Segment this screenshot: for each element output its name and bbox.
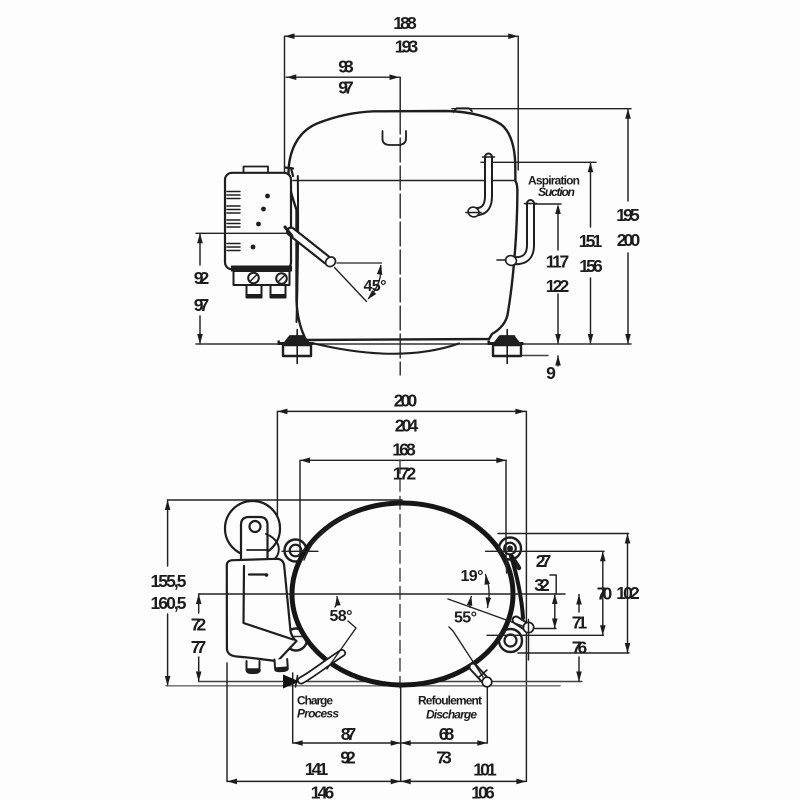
wire dim 155,5 vertical: [167, 500, 169, 686]
svg-text:72: 72: [191, 615, 207, 635]
arrowheads 93: [286, 74, 296, 80]
wire ext box left: [226, 663, 228, 781]
process tube 45deg: [285, 227, 337, 269]
strap to grommet: [266, 534, 279, 563]
foot left: [278, 330, 314, 364]
wire dim line 200/204: [277, 411, 525, 536]
wire centerline vertical dashed: [399, 460, 401, 688]
arrowhead 9: [555, 356, 561, 366]
svg-text:Process: Process: [297, 707, 339, 721]
svg-text:122: 122: [546, 276, 570, 296]
grommet bottom-left: [285, 619, 316, 651]
wire dim 72/77 vertical: [198, 594, 200, 682]
wire bottom ref A: [199, 681, 582, 683]
svg-text:151: 151: [579, 231, 603, 251]
wire ref tube stub: [535, 628, 556, 630]
svg-text:93: 93: [338, 57, 354, 77]
svg-text:92: 92: [194, 268, 210, 288]
wire foot bottom ref (9): [521, 355, 548, 357]
wire dim line 87/68: [293, 742, 488, 744]
wire dim line 92/97 vertical: [199, 233, 201, 344]
box lower strap: [231, 266, 292, 272]
relay circle: [225, 501, 280, 556]
wire ref left boltline: [282, 550, 318, 552]
wire ref line 117 top: [526, 203, 561, 205]
svg-text:200: 200: [617, 230, 641, 250]
svg-text:45°: 45°: [364, 278, 387, 295]
svg-text:55°: 55°: [454, 610, 477, 627]
suction tube curve (plan): [511, 556, 523, 618]
58deg construction: [327, 597, 356, 670]
svg-text:117: 117: [546, 252, 570, 272]
arrowheads 117/122: [555, 204, 561, 214]
arrowheads 72/77: [196, 594, 202, 604]
shell inner seam arc: [304, 512, 355, 560]
svg-text:27: 27: [536, 551, 552, 571]
shell bottom sag: [314, 344, 459, 354]
arrowheads 168: [300, 458, 310, 464]
ref line 92 top (over box): [196, 232, 291, 234]
svg-text:101: 101: [473, 760, 497, 780]
svg-text:19°: 19°: [461, 568, 484, 585]
arrowheads 70: [600, 551, 606, 561]
wire dim 70: [602, 551, 604, 635]
wire ref line 195 top: [452, 108, 631, 110]
svg-text:76: 76: [572, 638, 588, 658]
box rivet dots: [251, 194, 270, 250]
wire ref boltline bottom: [487, 634, 604, 636]
relay bracket: [241, 517, 268, 565]
terminal box (side view): [225, 167, 298, 323]
grommet top-right: [499, 538, 521, 574]
svg-text:70: 70: [597, 584, 613, 604]
arrowheads 87/68: [293, 740, 303, 746]
wire dim line 188/193: [285, 36, 519, 176]
weld seam line: [293, 180, 515, 182]
svg-text:102: 102: [616, 583, 640, 603]
svg-text:Refoulement: Refoulement: [418, 694, 482, 708]
wire ext discharge tube: [486, 686, 488, 743]
suction tube 2 (lower): [497, 204, 537, 267]
top notch: [454, 108, 473, 112]
centerline vertical: [399, 110, 401, 375]
arrowheads 102: [625, 534, 631, 544]
discharge axis 55deg: [449, 627, 483, 677]
wire ref grommet bottom: [518, 652, 629, 654]
svg-text:32: 32: [534, 575, 550, 595]
wire dim line 93/97: [286, 77, 400, 112]
wire dim 102: [627, 534, 629, 654]
process arrow black: [283, 675, 300, 689]
svg-text:92: 92: [340, 748, 356, 768]
arrowheads 200: [277, 409, 287, 415]
45deg construction: [335, 263, 382, 302]
oval shell (plan view): [292, 503, 513, 685]
svg-text:Discharge: Discharge: [426, 708, 477, 722]
arrowheads 155,5: [165, 500, 171, 510]
svg-text:106: 106: [471, 783, 495, 800]
wire dim line 117/122 vertical: [557, 207, 559, 366]
process tube (plan): [296, 653, 343, 687]
wire center line horizontal: [199, 593, 565, 595]
wire ref grommet top: [498, 533, 629, 535]
wire centerline below oval: [400, 685, 402, 781]
svg-text:9: 9: [546, 363, 556, 383]
wire dim line 151/156 vertical: [590, 162, 592, 344]
top handle: [383, 131, 407, 145]
svg-text:168: 168: [392, 440, 416, 460]
texts side view: [194, 13, 641, 383]
svg-text:195: 195: [616, 205, 640, 225]
wire ground line: [196, 343, 631, 345]
svg-text:87: 87: [341, 724, 357, 744]
arrowheads 151/156: [588, 162, 594, 172]
svg-text:97: 97: [194, 295, 210, 315]
svg-text:200: 200: [394, 391, 418, 411]
svg-text:58°: 58°: [330, 608, 353, 625]
tube stub right: [516, 620, 534, 661]
wire bottom ref B: [166, 685, 560, 687]
suction tube 1 (upper): [466, 157, 495, 218]
svg-text:68: 68: [439, 724, 455, 744]
arrowheads 92/97: [197, 233, 203, 243]
ref line 151 top (over body): [481, 161, 596, 163]
arrowheads 71/76: [576, 595, 582, 605]
wire ext line right long: [525, 411, 527, 781]
arrowheads 141/101: [227, 779, 237, 785]
tube stub axis 19deg: [448, 599, 524, 627]
wire dim 27/32: [550, 575, 556, 629]
arrowheads 27/32: [552, 594, 558, 604]
svg-text:146: 146: [311, 783, 335, 800]
wire ext process tube: [292, 673, 294, 743]
box tabs: [247, 659, 288, 673]
discharge tube: [473, 667, 492, 687]
svg-text:71: 71: [572, 613, 588, 633]
wire dim line 141/101: [227, 780, 526, 782]
wire dim 71/76: [578, 595, 580, 682]
svg-text:77: 77: [191, 637, 207, 657]
19deg construction: [470, 575, 489, 608]
svg-text:188: 188: [393, 13, 417, 33]
svg-text:73: 73: [436, 748, 452, 768]
texts plan view: [151, 391, 641, 800]
svg-text:155,5: 155,5: [151, 571, 187, 591]
svg-text:Suction: Suction: [538, 185, 575, 199]
svg-text:204: 204: [395, 416, 419, 436]
grommet bottom-right: [499, 629, 522, 652]
grommet top-left: [285, 540, 307, 562]
svg-text:156: 156: [579, 256, 603, 276]
wire ref right boltline top: [486, 550, 605, 552]
terminal box (plan view): [227, 559, 297, 662]
svg-text:160,5: 160,5: [151, 593, 187, 613]
overlay reference lines (drawn over shapes): [168, 460, 604, 688]
foot right: [488, 330, 524, 364]
box vent slots: [227, 192, 240, 251]
svg-text:97: 97: [338, 78, 354, 98]
wire ref circle top: [168, 499, 402, 501]
svg-text:193: 193: [395, 37, 419, 57]
terminal block: [234, 271, 290, 298]
arrowheads 195/200: [625, 109, 631, 119]
svg-text:172: 172: [393, 464, 417, 484]
svg-text:141: 141: [305, 759, 329, 779]
arrowheads 188: [285, 33, 295, 39]
svg-text:Charge: Charge: [297, 694, 333, 708]
wire dim line 195/200 vertical: [627, 109, 629, 344]
wire dim line 168/172: [300, 460, 506, 570]
compressor body shell (side view): [289, 111, 518, 340]
